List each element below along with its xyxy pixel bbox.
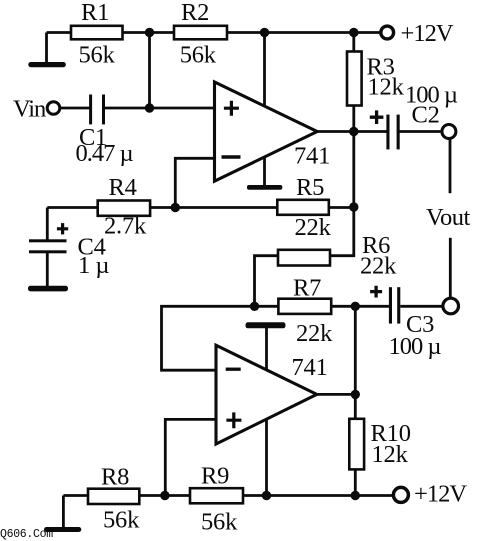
wire R4 row down to C4 [46,208,49,241]
wire R4 node up to U1 - input [175,158,214,207]
svg-text:+12V: +12V [401,20,454,47]
node R10 bottom [351,491,360,500]
resistor R8 [88,489,139,504]
node U1 supply tap [260,28,269,37]
ground C4 [28,286,68,292]
terminal C2 output [442,125,456,139]
ground op-amp U1 [247,185,282,190]
terminal +12V top [381,26,394,39]
wire bottom +12V rail [63,494,393,497]
svg-text:+12V: +12V [414,481,467,508]
wire R7 node left and down to U2 - input [162,306,255,370]
wire Vin terminal to C1 [60,107,90,110]
wire Vout upper segment [449,139,452,194]
wire U2 output to lower right vertical [317,393,356,396]
resistor R4 [98,201,150,216]
wire R5 node down and left to R6 [330,207,354,256]
wire U2 + input left and down to bottom rail [165,419,216,495]
svg-text:22k: 22k [295,214,332,241]
resistor R1 [71,26,123,40]
svg-text:R4: R4 [109,174,137,201]
wire C3 to output terminal [400,305,443,308]
wire C4 to ground [46,252,49,287]
wire C2 to output terminal [400,130,443,133]
resistor R10 [349,419,364,470]
svg-text:56k: 56k [180,42,217,69]
node U2 output [351,390,360,399]
svg-text:1 µ: 1 µ [78,252,109,279]
C3 polarity + [370,286,382,298]
wire C1 to op-amp U1 + input [105,107,215,110]
svg-text:R5: R5 [296,174,324,201]
wire top-left ground stub [45,33,48,63]
node U1 output [349,127,358,136]
U1 + input symbol [224,101,239,116]
node R3 top [349,28,358,37]
node R8-R9 junction [160,491,169,500]
resistor R7 [278,299,331,314]
svg-text:56k: 56k [201,509,238,536]
svg-text:22k: 22k [360,253,397,280]
U2 + input symbol [226,412,241,428]
capacitor C1 [89,95,92,125]
ground top-left [28,62,66,67]
svg-text:Vout: Vout [426,204,471,231]
wire Vout lower segment [449,238,452,299]
svg-text:C2: C2 [412,102,440,129]
svg-text:100 µ: 100 µ [389,333,442,360]
node C1 output [145,103,154,112]
terminal C3 output [443,298,459,314]
op-amp U1 [215,82,318,181]
resistor R5 [277,200,329,215]
wire R6 left down to R7 node [255,256,279,307]
svg-text:56k: 56k [103,507,140,534]
svg-text:R7: R7 [293,275,321,302]
resistor R6 [278,250,330,266]
wire top +12V rail [47,31,382,34]
resistor R2 [174,26,227,40]
svg-text:741: 741 [294,143,330,170]
svg-text:Vin: Vin [13,96,46,123]
wire R1R2 junction down to C1 node [148,33,151,109]
svg-text:12k: 12k [368,74,405,101]
svg-text:56k: 56k [79,42,116,69]
U1 - input symbol [222,155,241,159]
svg-text:R9: R9 [201,463,229,490]
wire C3 node down through R10 to bottom rail [354,306,357,495]
node R4-R5 junction [171,203,180,212]
wire R4 R5 row [47,206,354,209]
C4 polarity + [57,223,68,234]
U2 - input symbol [226,368,241,371]
op-amp U2 [216,345,317,444]
wire bottom-left ground stub [62,496,65,528]
node R7 left [250,302,259,311]
svg-text:R8: R8 [101,464,129,491]
wire output node down to R5 node [352,132,355,208]
node R1-R2 junction [145,28,154,37]
resistor R9 [190,488,243,503]
svg-text:R1: R1 [81,0,109,26]
wire R7 row to C3 [255,305,390,308]
wire right vertical +12V to output node [352,33,355,132]
svg-text:Q606.Com: Q606.Com [0,528,53,541]
ground bottom-left [44,527,81,532]
svg-text:12k: 12k [372,441,409,468]
svg-text:741: 741 [292,354,328,381]
capacitor C2 [386,115,389,150]
node U2 stem bottom [262,491,271,500]
capacitor C3 [389,287,392,323]
svg-text:22k: 22k [296,320,333,347]
wire U1 V+ stem [263,33,266,186]
svg-text:2.7k: 2.7k [104,213,147,240]
svg-text:R2: R2 [181,0,209,26]
svg-text:0.47 µ: 0.47 µ [76,140,134,167]
wire U2 ground stem [265,328,268,496]
terminal +12V bottom [393,487,408,502]
ground op-amp U2 [246,322,286,328]
terminal Vin [47,102,60,115]
resistor R3 [347,52,362,106]
node R5 right [349,202,358,211]
node R7 right [351,302,360,311]
wire U1 output to C2 [317,130,387,133]
capacitor C4 [29,239,67,242]
C2 polarity + [370,110,384,124]
